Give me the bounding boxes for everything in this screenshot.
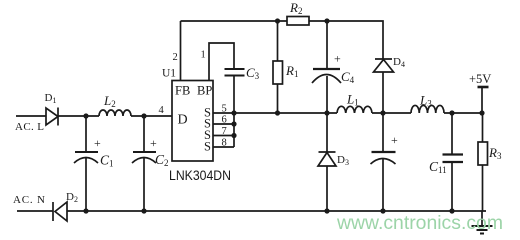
capacitor C4 [312,69,341,113]
svg-text:+5V: +5V [469,72,491,86]
wire C3 to source tie [233,76,235,148]
diode D4 [374,59,394,113]
wire pin2 FB [180,21,182,81]
capacitor C1 [74,152,98,211]
node C2 junction [141,113,146,118]
wire main output rail [234,112,337,114]
wire +5V terminal [478,87,489,113]
wire bottom rail [67,210,486,212]
wire R1 bottom lead [277,84,279,113]
svg-text:L1: L1 [346,92,359,108]
wire pin5 stub [213,112,234,114]
inductor L1 [337,106,372,113]
svg-text:+: + [94,136,101,150]
wire pin8 stub [213,146,234,148]
diode D1 [46,108,58,126]
svg-text:FB: FB [175,84,190,98]
wire AC.L input [16,115,46,117]
svg-text:AC. L: AC. L [15,121,44,133]
wire C4 top lead [326,21,328,69]
capacitor C5 output [371,113,396,211]
junction C5 bottom [380,208,385,213]
svg-text:www.cntronics.com: www.cntronics.com [336,213,503,234]
node C1 junction [83,113,88,118]
ground [472,211,493,234]
svg-text:4: 4 [159,105,165,116]
junction R1 top [275,18,280,23]
svg-text:+: + [334,52,341,66]
svg-text:D: D [178,113,188,128]
capacitor C11 [443,113,464,211]
wire L1 to L3 [372,112,411,114]
svg-text:7: 7 [222,126,227,137]
svg-text:D1: D1 [45,92,57,105]
resistor R2 [287,17,309,26]
junction D3 bottom [324,208,329,213]
wire AC.N input [17,210,53,212]
junction C11 bottom [449,208,454,213]
wire pin1 BP [209,43,234,81]
svg-text:L3: L3 [419,93,432,109]
wire pin7 stub [213,135,234,137]
junction C11 top [449,110,454,115]
junction pin6 [231,121,236,126]
junction +5V node [479,110,484,115]
junction R1 bottom [275,110,280,115]
capacitor C3 [225,69,245,76]
junction pin7 [231,133,236,138]
svg-text:AC. N: AC. N [13,194,45,206]
junction C4 top [324,18,329,23]
svg-text:U1: U1 [162,68,176,80]
svg-text:R3: R3 [488,145,502,161]
svg-text:BP: BP [197,84,212,98]
wire C1 branch [85,116,87,152]
diode D3 [318,113,336,211]
resistor R3 [478,113,488,211]
wire D1 to node [58,115,99,117]
diode D2 [53,202,67,221]
svg-text:2: 2 [173,52,178,63]
svg-text:+: + [391,133,398,147]
svg-text:C1: C1 [100,153,114,169]
inductor L2 [99,110,131,116]
junction C1 bottom [83,208,88,213]
svg-text:6: 6 [222,115,227,126]
capacitor C2 [132,152,156,211]
svg-text:+: + [150,136,157,150]
svg-text:1: 1 [201,50,206,61]
svg-text:D2: D2 [66,191,78,204]
svg-text:LNK304DN: LNK304DN [169,167,231,183]
svg-text:C3: C3 [246,65,260,81]
resistor R1 [273,61,283,84]
svg-text:S: S [204,140,211,154]
junction pin5 [231,110,236,115]
wire R2 to D4 top [309,21,383,59]
svg-text:8: 8 [222,138,227,149]
junction C2 bottom [141,208,146,213]
wire C2 branch [143,116,145,152]
svg-text:5: 5 [222,104,227,115]
wire pin6 stub [213,123,234,125]
svg-text:C2: C2 [155,152,169,168]
wire top rail [181,20,288,22]
svg-text:R1: R1 [285,63,298,79]
svg-text:D3: D3 [337,154,349,167]
svg-text:R2: R2 [289,0,302,16]
inductor L3 [411,105,444,113]
wire R1 top lead [277,21,279,61]
svg-text:D4: D4 [393,56,405,69]
svg-text:L2: L2 [103,93,116,109]
junction C4 bottom [324,110,329,115]
wire L2 to U1 pin4 [131,115,172,117]
wire L3 to +5V [444,112,482,114]
svg-text:C4: C4 [341,69,355,85]
op-amp U1 LNK304DN body [172,81,213,162]
junction D4 node [380,110,385,115]
